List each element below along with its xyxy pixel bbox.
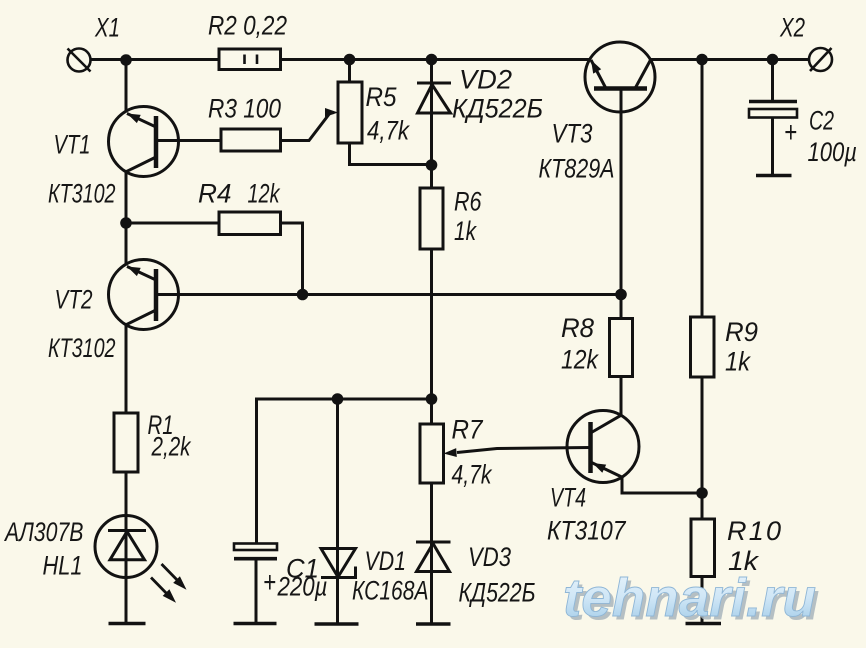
node R5 rail [344, 54, 356, 66]
wire R5 top lead [348, 60, 351, 83]
svg-text:R6: R6 [454, 187, 482, 217]
svg-text:+: + [784, 116, 797, 149]
svg-text:R3 100: R3 100 [208, 94, 281, 124]
R7 wiper arrowhead [444, 448, 457, 457]
diode VD2 [417, 83, 451, 113]
svg-text:R5: R5 [366, 82, 398, 112]
svg-text:VD1: VD1 [365, 546, 407, 576]
svg-text:4,7k: 4,7k [367, 116, 410, 146]
capacitor C1 [234, 544, 277, 559]
resistor R1 [114, 413, 138, 472]
node R5-VD2-R6 [426, 159, 438, 171]
svg-text:12k: 12k [248, 179, 281, 209]
wire VT4 base to R7 arrow [457, 448, 591, 453]
svg-text:VD3: VD3 [468, 542, 511, 572]
wire R5 bottom lead to node [350, 143, 432, 165]
node R4 right [297, 289, 309, 301]
watermark tehnari.ru [563, 568, 820, 632]
wire C1 to ground [255, 561, 258, 624]
wire VD2 column rail to R6 [430, 60, 433, 189]
resistor R6 [420, 188, 443, 249]
wire R9 to node [701, 377, 704, 493]
svg-text:X2: X2 [779, 13, 805, 43]
node C2 rail [767, 54, 779, 66]
svg-text:КТ3102: КТ3102 [48, 179, 116, 209]
LED HL1 [95, 516, 187, 603]
wire VT3 base column [620, 89, 623, 295]
node X1 rail [120, 54, 132, 66]
svg-text:4,7k: 4,7k [452, 460, 493, 490]
svg-text:VT2: VT2 [55, 285, 93, 315]
ground C1 [234, 622, 277, 625]
transistor VT3 [585, 42, 655, 112]
svg-text:100µ: 100µ [808, 137, 858, 167]
svg-text:VT1: VT1 [54, 130, 91, 160]
wire C2 to ground [771, 118, 774, 174]
resistor R8 [610, 319, 633, 377]
svg-text:VT3: VT3 [552, 119, 593, 149]
node VT3 base [615, 289, 627, 301]
svg-text:C2: C2 [809, 106, 834, 136]
wire rail to C2 [771, 60, 774, 101]
wire R7 through VD3 to ground [430, 483, 433, 624]
ground VD1 [315, 622, 359, 625]
svg-text:220µ: 220µ [277, 572, 328, 602]
svg-text:КД522Б: КД522Б [459, 578, 536, 608]
node R9 rail [696, 54, 708, 66]
svg-text:R10: R10 [727, 516, 781, 546]
node R4 left [120, 217, 132, 229]
svg-text:2,2k: 2,2k [151, 432, 192, 462]
svg-text:VD2: VD2 [459, 65, 512, 95]
resistor R3 [221, 129, 281, 151]
svg-text:R2 0,22: R2 0,22 [208, 11, 287, 41]
svg-text:12k: 12k [561, 345, 599, 375]
ground VD3 [416, 622, 451, 625]
svg-text:КТ3102: КТ3102 [48, 333, 116, 363]
terminal X1 [68, 49, 91, 72]
transistor VT2 [109, 260, 179, 330]
wire R8 to VT4 collector [620, 377, 623, 416]
wire rail to R9 [701, 60, 704, 318]
node VD2 rail [426, 54, 438, 66]
svg-text:R7: R7 [452, 415, 484, 445]
R5 wiper arrowhead [325, 108, 338, 117]
wire VT2 base rail [156, 293, 621, 296]
ground C2 [756, 174, 792, 177]
svg-text:КТ3107: КТ3107 [547, 516, 626, 546]
ground R10 [686, 622, 722, 625]
svg-text:tehnari.ru: tehnari.ru [563, 568, 816, 628]
wire node row to C1 [257, 399, 432, 544]
svg-text:КД522Б: КД522Б [452, 94, 543, 124]
resistor R10 [691, 519, 715, 577]
wire R10 to ground [701, 577, 704, 624]
wire VD1 column node to ground [336, 399, 339, 624]
svg-text:АЛ307В: АЛ307В [3, 517, 83, 547]
svg-text:+: + [263, 566, 276, 599]
svg-text:КТ829А: КТ829А [539, 154, 615, 184]
svg-text:КС168А: КС168А [352, 576, 429, 606]
svg-text:VT4: VT4 [550, 483, 586, 513]
zener VD1 [321, 549, 356, 578]
svg-text:R8: R8 [561, 313, 594, 343]
svg-text:R9: R9 [725, 317, 758, 347]
wire R1 to HL1 and through LED to ground [125, 472, 128, 624]
wire R6 to R7 [430, 249, 433, 424]
ground HL1 [109, 622, 146, 625]
potentiometer R5 [338, 82, 362, 143]
wire X1 column to VT1 emitter [125, 60, 128, 113]
resistor R2 [219, 49, 281, 70]
wire VT1 base to R3 [156, 139, 221, 142]
svg-text:1k: 1k [725, 347, 751, 377]
wire R3 to R5 wiper [281, 113, 335, 141]
wire top rail right (VT3 to X2) [651, 58, 810, 61]
resistor R9 [691, 317, 715, 377]
transistor VT1 [109, 107, 179, 177]
wire VT1 collector to VT2 emitter [125, 171, 128, 266]
wire node to R8 [620, 295, 623, 319]
node VT4 emitter R9 R10 [696, 487, 708, 499]
terminal X2 [809, 48, 832, 71]
svg-text:HL1: HL1 [43, 551, 83, 581]
wire R4 right lead down [281, 223, 303, 295]
diode VD3 [416, 542, 451, 572]
capacitor C2 [749, 102, 797, 118]
svg-text:X1: X1 [94, 13, 120, 43]
wire VT2 collector to R1 [125, 325, 128, 414]
node VD1 top [332, 393, 344, 405]
potentiometer R7 [420, 424, 444, 483]
wire node to R10 [701, 493, 704, 519]
wire top rail left (X1 to VT3) [91, 58, 591, 61]
wire VT4 emitter to node [622, 477, 702, 493]
svg-text:R4: R4 [198, 179, 232, 209]
node R6-R7 row [426, 393, 438, 405]
svg-text:1k: 1k [454, 216, 477, 246]
transistor VT4 [567, 411, 639, 483]
wire R4 left lead [126, 222, 219, 225]
resistor R4 [219, 212, 281, 235]
